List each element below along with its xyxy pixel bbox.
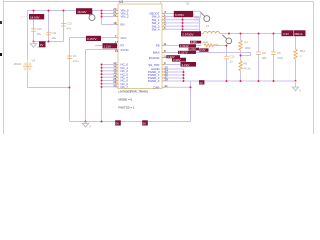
wire left ground return rail: [28, 87, 70, 89]
svg-text:R6: R6: [244, 62, 248, 66]
svg-text:3.30V: 3.30V: [173, 58, 181, 62]
wire V3 column: [27, 11, 29, 88]
label BIAS voltage 2: [167, 55, 181, 59]
U1 left pin names: [121, 9, 129, 90]
svg-text:LM76003RNP_TRANS: LM76003RNP_TRANS: [119, 90, 149, 94]
svg-text:100k: 100k: [245, 46, 252, 50]
wire SS_TRK stub: [162, 64, 190, 66]
svg-text:10u: 10u: [37, 32, 42, 36]
svg-text:0V: 0V: [200, 81, 203, 85]
wire C10 column: [33, 11, 35, 42]
svg-text:VCC: VCC: [121, 36, 127, 40]
wire SYNC row: [86, 49, 119, 51]
wire EN row: [102, 24, 119, 26]
svg-text:0V: 0V: [116, 122, 119, 126]
label VOUT voltage and current: [282, 30, 306, 36]
svg-text:PGND_3: PGND_3: [148, 79, 160, 83]
node NC bus dots: [101, 64, 103, 88]
U1 pin stubs: [116, 11, 165, 88]
svg-text:10u: 10u: [52, 36, 57, 40]
svg-text:18.00V: 18.00V: [77, 10, 86, 14]
svg-text:VIN_2: VIN_2: [121, 15, 129, 19]
svg-text:44.2k: 44.2k: [244, 67, 251, 71]
label VIN voltage pointer: [20, 14, 44, 19]
svg-text:2.9700V: 2.9700V: [182, 33, 193, 37]
svg-text:R10: R10: [300, 49, 306, 53]
svg-text:470n: 470n: [277, 56, 284, 60]
svg-text:29: 29: [165, 78, 169, 82]
svg-text:EN: EN: [121, 23, 125, 27]
op-amp U1 body: [118, 0, 162, 88]
wire DAP down column: [190, 81, 192, 122]
svg-text:C1: C1: [73, 54, 77, 58]
wire CBOOT to SW column: [199, 18, 201, 34]
svg-text:MODE = 0: MODE = 0: [119, 98, 133, 102]
ground input rail: [30, 42, 39, 50]
node VOUT rail dots: [240, 33, 275, 35]
label right gnd 0V: [199, 80, 204, 85]
wire C11 column: [48, 11, 50, 42]
svg-text:3.3V: 3.3V: [200, 48, 206, 52]
wire SW bus column: [182, 17, 184, 34]
node FB net dots: [226, 45, 242, 57]
wire SYNC ground column: [85, 50, 87, 122]
svg-text:SYNC: SYNC: [121, 48, 129, 52]
wire VCC row: [70, 37, 119, 39]
sheet border: [0, 0, 314, 134]
wire FB divider jog: [162, 53, 251, 56]
U1 right pin names: [148, 12, 160, 90]
node bottom rail dots: [85, 121, 103, 123]
U1 right pin numbers: [164, 10, 169, 88]
node right gnd rail dots: [226, 80, 297, 82]
inductor L2: [201, 24, 220, 44]
label bottom rail 0V a: [115, 120, 121, 125]
label divider node voltage: [189, 48, 209, 53]
label input gnd 0V: [39, 41, 46, 47]
wire VIN_2 stub: [102, 16, 119, 18]
label L2 node voltage: [190, 41, 201, 44]
svg-text:FASTSS = 1: FASTSS = 1: [119, 106, 135, 110]
capacitor C10: [31, 27, 42, 36]
wire SW to L2: [183, 33, 204, 35]
svg-text:L2: L2: [206, 24, 210, 28]
svg-text:C4: C4: [262, 51, 266, 55]
svg-text:V3: V3: [32, 59, 36, 63]
label RT voltage: [103, 43, 118, 48]
wire C1 column: [69, 38, 71, 122]
svg-text:1.01V: 1.01V: [189, 48, 196, 51]
svg-text:68u: 68u: [262, 56, 267, 60]
probe VIN: [87, 12, 96, 21]
node SW junction dots: [182, 19, 184, 35]
svg-text:1.21V: 1.21V: [104, 45, 112, 49]
svg-text:3.157V: 3.157V: [179, 51, 188, 55]
label BIAS voltage: [178, 51, 196, 55]
wire VOUT rail: [220, 33, 306, 35]
svg-text:DAP: DAP: [154, 85, 160, 89]
wire SW pin rows: [162, 17, 200, 30]
svg-text:0V: 0V: [143, 122, 146, 126]
label CBOOT voltage: [174, 11, 193, 17]
svg-text:BIAS: BIAS: [153, 51, 160, 55]
U1 left pin numbers: [113, 7, 118, 87]
svg-text:C10: C10: [37, 27, 43, 31]
wire AGND/PGND pin rows: [162, 69, 184, 81]
wire FB to C12: [213, 46, 227, 57]
U1 model text: [119, 90, 149, 110]
ground bottom rail: [82, 122, 91, 129]
svg-text:NC_7: NC_7: [121, 85, 129, 89]
node input gnd rail dots: [33, 41, 50, 43]
wire top input rail: [28, 10, 119, 12]
wire PGND bus column: [183, 69, 185, 81]
probe VOUT: [222, 33, 231, 44]
label VIN voltage: [76, 8, 92, 14]
wire NC bus column: [101, 65, 103, 122]
svg-text:18Vdc: 18Vdc: [14, 62, 23, 66]
svg-text:C8: C8: [186, 2, 190, 6]
svg-text:968mA: 968mA: [294, 32, 302, 36]
svg-text:1.011V: 1.011V: [180, 44, 189, 48]
node PGND bus dots: [183, 71, 192, 88]
wire PGOOD stub: [162, 57, 186, 59]
svg-text:47n: 47n: [67, 27, 72, 31]
wire C13 column: [63, 11, 65, 42]
wire input cap ground rail: [34, 41, 64, 43]
ground output rail: [292, 81, 301, 92]
svg-text:C5: C5: [277, 51, 281, 55]
svg-text:U1: U1: [119, 0, 123, 4]
svg-text:FB: FB: [156, 44, 160, 48]
capacitor C11: [46, 31, 57, 40]
svg-text:3.157V: 3.157V: [87, 37, 97, 41]
wire right ground rail: [184, 80, 296, 82]
svg-text:SW_4: SW_4: [152, 28, 160, 32]
svg-text:2.2u: 2.2u: [73, 59, 79, 63]
label bottom rail 0V b: [142, 120, 148, 125]
resistor R7: [239, 34, 251, 56]
svg-text:R7: R7: [245, 41, 249, 45]
label FB voltage: [179, 44, 196, 48]
wire RT row: [95, 45, 118, 47]
wire VIN_1 stub: [102, 13, 119, 15]
svg-text:3.19V: 3.19V: [182, 63, 190, 67]
svg-text:3.30V: 3.30V: [191, 41, 198, 44]
svg-text:3.3V: 3.3V: [283, 32, 289, 36]
svg-text:18.00V: 18.00V: [30, 15, 40, 19]
capacitor C12: [224, 55, 235, 82]
svg-text:1u: 1u: [230, 60, 234, 64]
svg-text:8.065V: 8.065V: [175, 13, 184, 17]
label VCC voltage: [86, 36, 101, 41]
svg-text:C13: C13: [67, 22, 73, 26]
svg-text:0V: 0V: [40, 43, 44, 47]
voltage source V3: [14, 59, 36, 74]
resistor R6: [239, 56, 251, 82]
label SW voltage: [181, 31, 201, 36]
capacitor C13: [61, 22, 72, 31]
capacitor C5: [271, 34, 283, 82]
label PGOOD voltage: [172, 58, 186, 62]
wire VIN pin bus: [101, 11, 103, 25]
wire CBOOT row: [162, 13, 193, 15]
svg-text:31: 31: [165, 84, 169, 88]
capacitor C1: [67, 54, 79, 63]
wire DAP row: [162, 86, 191, 88]
wire FB row: [162, 45, 201, 47]
label SS_TRK voltage: [181, 62, 197, 67]
resistor R8 feedforward: [204, 43, 219, 47]
resistor R10 load: [294, 34, 306, 82]
probe CBOOT: [201, 13, 210, 22]
svg-text:PGOOD: PGOOD: [149, 56, 160, 60]
wire bottom ground rail: [70, 121, 191, 123]
svg-text:3.3uH: 3.3uH: [201, 40, 208, 44]
node top rail dots: [33, 10, 103, 18]
svg-text:C11: C11: [52, 31, 57, 35]
svg-text:C12: C12: [230, 55, 236, 59]
node left return dot: [69, 87, 71, 89]
capacitor C4: [256, 34, 267, 82]
wire NC pin rows: [102, 65, 119, 87]
capacitor C8: [186, 2, 201, 22]
